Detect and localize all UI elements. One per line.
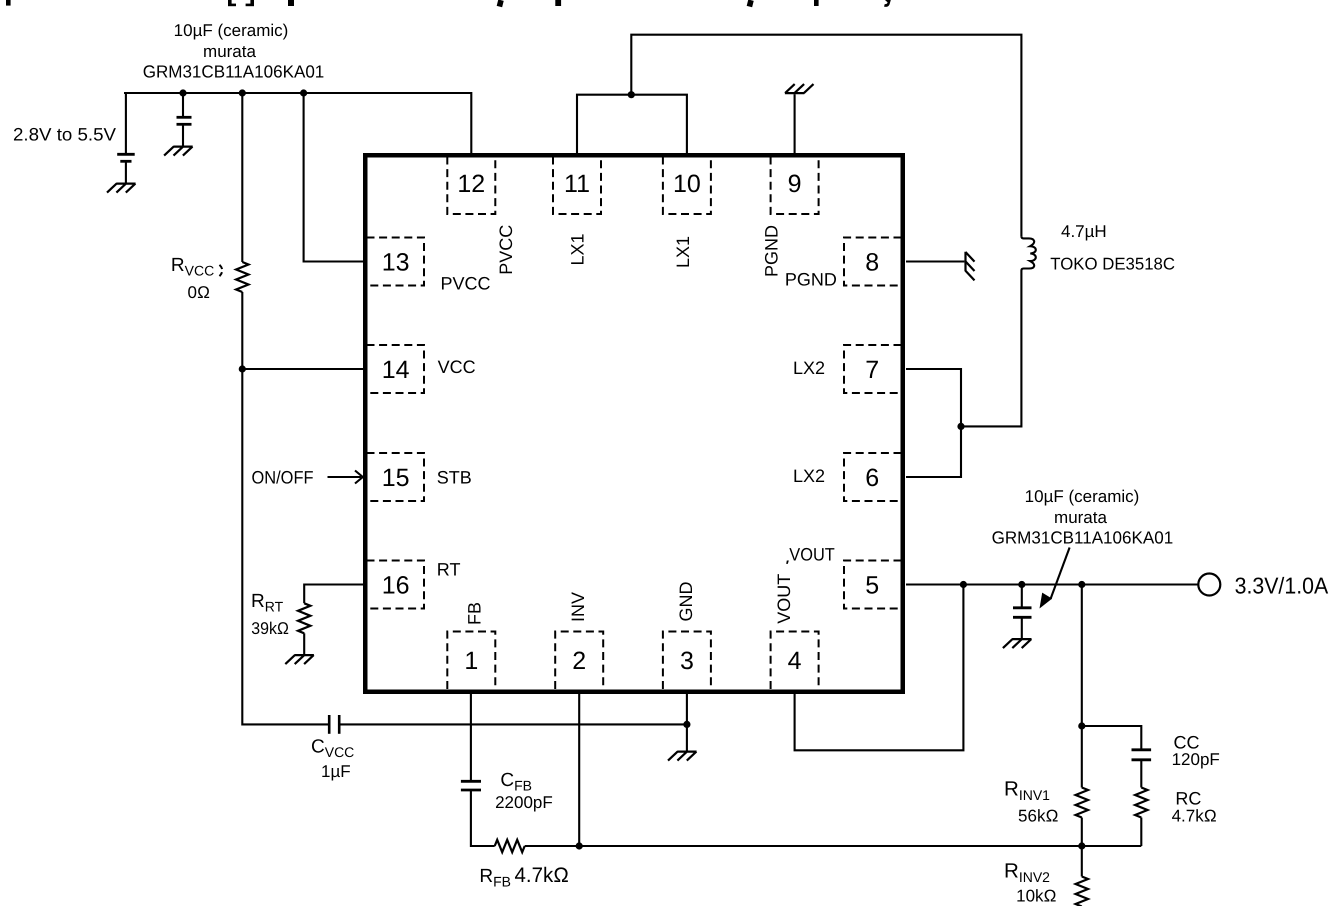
wire RVCC branch lower + CVCC run [242,292,329,724]
svg-text:14: 14 [382,356,410,384]
pin 9 box [771,157,819,215]
svg-text:PGND: PGND [785,270,837,290]
svg-text:FB: FB [465,602,485,625]
svg-text:STB: STB [437,467,472,487]
svg-text:10: 10 [673,170,701,198]
svg-text:GND: GND [676,582,696,622]
svg-text:RFB4.7kΩ: RFB4.7kΩ [479,864,569,890]
wire pin 8 to ground [906,260,964,262]
capacitor CIN 10uF plates [177,117,192,124]
wire CFB to RFB corner [471,791,495,847]
arrow pointing to output cap [1051,548,1070,600]
wire RVCC branch upper [241,93,243,262]
junction GND pin 3 [683,721,690,728]
pin 11 box [553,157,601,215]
capacitor C_FB plates [461,781,481,790]
IC U1 body border [365,155,903,692]
svg-text:11: 11 [564,170,590,198]
wire pin 1 to CFB [470,694,472,781]
svg-text:2: 2 [572,647,586,675]
wire LX bridge up to inductor [631,35,1021,237]
junction LX1 bridge [628,91,635,98]
inductor L1 coil [1021,236,1035,270]
svg-text:PVCC: PVCC [496,225,516,275]
input source 2.8V-5.5V plates [117,154,135,161]
svg-text:VOUT: VOUT [774,574,794,624]
svg-text:13: 13 [382,249,410,277]
svg-text:PVCC: PVCC [441,274,491,294]
pin 5 box [844,561,902,609]
wire input rail to pin 12 [124,93,471,155]
svg-text:1µF: 1µF [321,762,351,781]
wire CVCC right to pin3 node [339,723,687,725]
IC U1 pin boxes (dashed) [367,157,902,690]
pin 4 box [771,632,819,690]
svg-text:RT: RT [437,560,461,580]
wire source lower lead [125,163,127,184]
pin 1 box [447,632,495,690]
junction VOUT / pin4 riser [960,581,967,588]
ground below RRT [285,655,314,664]
resistor RC zigzag [1135,788,1147,818]
svg-text:9: 9 [788,170,802,198]
wire output cap lower lead [1021,618,1023,640]
svg-text:VCC: VCC [438,357,476,377]
svg-text:4.7µH: 4.7µH [1061,222,1107,241]
wire pins 7/6 loop [906,369,961,477]
wire CC to RC [1140,761,1142,788]
wire pin 9 to ground [794,94,796,155]
svg-text:10µF (ceramic): 10µF (ceramic) [1025,487,1140,506]
svg-text:3: 3 [680,647,694,675]
resistor R_INV1 zigzag [1076,788,1088,818]
pin 16 box [367,561,425,609]
svg-text:0Ω: 0Ω [188,283,211,302]
svg-text:10µF (ceramic): 10µF (ceramic) [174,21,289,40]
svg-text:56kΩ: 56kΩ [1018,807,1058,826]
svg-text:39kΩ: 39kΩ [251,619,289,638]
junction LX2 node [957,423,964,430]
svg-text:GRM31CB11A106KA01: GRM31CB11A106KA01 [992,528,1174,548]
svg-text:10kΩ: 10kΩ [1016,886,1056,905]
wire input cap drop [182,93,184,116]
svg-text:2.8V to 5.5V: 2.8V to 5.5V [13,125,116,145]
resistor R_RT zigzag [298,603,310,633]
wire RRT to ground [303,633,305,655]
pin 12 box [447,157,495,215]
capacitor CC plates [1132,750,1152,760]
svg-text:TOKO DE3518C: TOKO DE3518C [1050,255,1175,274]
svg-text:8: 8 [865,249,879,277]
wire pin 3 to ground [686,694,688,752]
ground pin 8 (rotated) [966,252,975,281]
wire comp branch horizontal [1082,726,1142,749]
resistor R_VCC zigzag [236,262,248,292]
ON/OFF arrow into pin 15 [328,471,363,484]
svg-text:4: 4 [788,647,802,675]
pin 14 box [367,345,425,393]
svg-text:5: 5 [865,572,879,600]
wire feedback drop from output [1081,585,1083,727]
junction VCC pin 14 [239,365,246,372]
svg-text:LX1: LX1 [568,233,588,265]
svg-text:VOUT: VOUT [789,545,835,565]
resistor R_FB zigzag (horizontal) [495,840,525,852]
pin 10 box [663,157,711,215]
comma tick before VOUT pin5 [786,561,789,564]
svg-text:4.7kΩ: 4.7kΩ [1172,807,1217,826]
svg-text:PGND: PGND [761,225,781,277]
wire pin 5 output line [906,583,1198,585]
title text bottom fragments (cut off at top edge) [6,0,891,7]
junction VIN rail / CIN [179,89,186,96]
wire output cap drop [1021,585,1023,607]
pin 15 box [367,453,425,501]
svg-text:LX2: LX2 [793,358,825,378]
svg-text:16: 16 [382,572,410,600]
svg-text:GRM31CB11A106KA01: GRM31CB11A106KA01 [143,62,325,82]
wire input source drop [125,93,127,153]
wire RC to bottom rail [1140,818,1142,847]
svg-text:6: 6 [865,464,879,492]
svg-text:7: 7 [865,356,879,384]
svg-text:INV: INV [568,592,588,622]
resistor R_INV2 zigzag (cut at bottom) [1076,877,1088,906]
junction comp node [1078,722,1085,729]
svg-text:2200pF: 2200pF [495,793,553,812]
wire RINV1 upper lead [1081,726,1083,788]
junction VOUT / COUT [1018,581,1025,588]
pin 13 box [367,238,425,286]
wire pin 16 to RRT [304,585,364,604]
junction VIN rail / RVCC branch [239,89,246,96]
svg-text:murata: murata [1054,508,1107,527]
svg-text:12: 12 [457,170,485,198]
svg-text:RC: RC [1175,789,1201,809]
capacitor C_OUT plates [1013,608,1032,618]
junction VIN rail / PVCC branch [300,89,307,96]
wire RINV2 upper lead [1081,846,1083,877]
wire RINV1 lower lead [1081,818,1083,847]
ground below CIN [164,147,193,156]
pin 2 box [555,632,603,690]
ground below source [107,184,136,193]
svg-text:3.3V/1.0A: 3.3V/1.0A [1235,573,1329,599]
wire inductor bottom to LX2 node [961,271,1021,427]
wire VCC pin 14 line [242,368,364,370]
wire LX1 bridge pins 11-10 [577,95,687,155]
ground below output cap [1003,639,1032,648]
stray paren after R_VCC [220,265,223,276]
wire pin 4 route to output [795,585,964,751]
svg-text:LX2: LX2 [793,466,825,486]
pin 3 box [663,632,711,690]
svg-text:murata: murata [203,42,256,61]
svg-text:ON/OFF: ON/OFF [252,467,314,487]
wire pin 2 drop [578,694,580,846]
pin 8 box [844,238,902,286]
svg-text:LX1: LX1 [673,236,693,268]
ground pin 9 (flipped up) [785,84,814,93]
wire input cap lower lead [182,126,184,147]
ground pin 3 [668,752,697,761]
wire pin 13 branch [304,93,364,262]
pin 7 box [844,345,902,393]
wire RFB to bottom rail [525,845,1142,847]
svg-text:15: 15 [382,464,410,492]
output terminal circle [1198,574,1220,596]
junction INV / RFB [576,842,583,849]
junction INV rail / RINV2 [1078,842,1085,849]
junction VOUT / feedback [1078,581,1085,588]
svg-text:1: 1 [464,647,478,675]
svg-text:120pF: 120pF [1172,750,1220,769]
capacitor C_VCC plates [329,715,339,734]
pin 6 box [844,453,902,501]
